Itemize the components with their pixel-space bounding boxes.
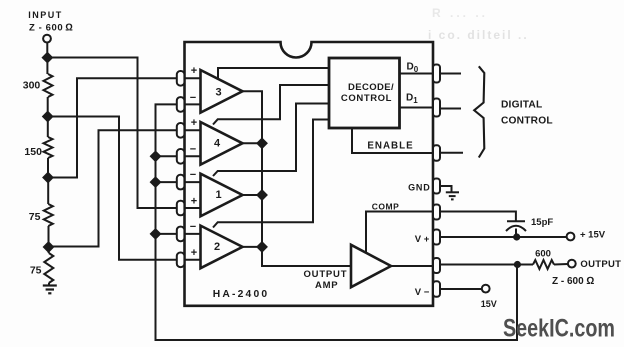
node -amp4 junction: [151, 152, 160, 161]
svg-text:−: −: [190, 221, 196, 233]
wire decode select amp4: [213, 85, 329, 125]
terminal OUTPUT: [568, 260, 576, 268]
svg-text:+: +: [191, 117, 197, 129]
wire amp2 output: [242, 246, 263, 248]
svg-text:AMP: AMP: [315, 280, 339, 291]
wire GND external: [440, 186, 452, 192]
wire V- external: [440, 288, 482, 290]
wire -amp4: [156, 155, 201, 157]
wire COMP internal: [366, 212, 433, 254]
pin +4: [177, 123, 185, 138]
svg-text:+: +: [191, 65, 197, 77]
pin -1: [177, 175, 185, 190]
pin V-: [433, 281, 440, 297]
wire -amp1: [156, 181, 201, 183]
node -amp2 junction: [151, 229, 160, 238]
brace digital control: [474, 66, 484, 157]
node C1 to V+: [513, 233, 520, 240]
node amp1 output junction: [257, 190, 266, 199]
wire decode select amp3: [218, 68, 329, 80]
svg-text:−: −: [190, 144, 196, 156]
wire amp3 output to bus: [242, 91, 352, 266]
terminal 15V: [482, 285, 490, 293]
pin V+: [433, 230, 440, 245]
svg-text:1: 1: [215, 189, 221, 201]
svg-text:Z - 600Ω: Z - 600Ω: [552, 275, 594, 287]
svg-text:−: −: [190, 169, 196, 181]
op-amp U1d 2: [201, 226, 243, 269]
svg-text:600: 600: [535, 249, 551, 260]
op-amp output amp: [351, 245, 391, 287]
resistor R3 75: [44, 204, 53, 226]
resistor R2 150: [44, 137, 53, 158]
node A: [43, 53, 52, 62]
wire D1: [400, 107, 434, 109]
wire: [46, 43, 48, 58]
wire node A to +amp1: [47, 58, 200, 209]
wire: [554, 263, 568, 266]
wire ENABLE external: [440, 152, 463, 154]
node amp4 output junction: [257, 139, 266, 148]
node D: [44, 242, 53, 251]
pin ENABLE: [433, 145, 440, 161]
svg-text:−: −: [190, 92, 196, 104]
wire COMP external: [440, 212, 516, 222]
op-amp U1c 1: [201, 174, 243, 217]
svg-text:75: 75: [29, 211, 41, 223]
svg-text:V −: V −: [415, 287, 430, 298]
svg-text:INPUT: INPUT: [28, 10, 63, 20]
svg-text:OUTPUT: OUTPUT: [303, 269, 347, 280]
svg-text:2: 2: [214, 241, 220, 253]
wire: [48, 247, 50, 253]
node -amp1 junction: [151, 178, 160, 187]
pin -4: [177, 149, 185, 164]
wire amp1 output: [242, 194, 263, 196]
wire node C to +amp3: [48, 78, 201, 177]
pin +3: [177, 71, 185, 86]
ground GND pin: [446, 192, 459, 199]
svg-text:75: 75: [30, 265, 42, 277]
ground: [43, 286, 57, 294]
node amp2 output junction: [257, 242, 266, 251]
wire amp4 output: [242, 142, 263, 144]
capacitor C1 15pF: [507, 220, 525, 222]
svg-text:300: 300: [23, 80, 41, 92]
svg-text:+: +: [191, 196, 197, 208]
pin COMP: [433, 205, 440, 220]
wire minus bus with feedback: [156, 104, 518, 340]
op-amp U1a 3: [201, 70, 243, 113]
pin D1: [433, 99, 440, 117]
svg-text:R ... ..: R ... ..: [432, 6, 488, 20]
svg-text:3: 3: [215, 86, 221, 98]
wire OUT external: [440, 264, 533, 266]
resistor R5 600: [533, 260, 554, 269]
node B: [43, 112, 52, 121]
svg-text:ENABLE: ENABLE: [367, 141, 413, 152]
svg-text:D1: D1: [406, 92, 418, 105]
pin +2: [177, 253, 185, 268]
wire decode select amp1: [213, 104, 329, 177]
wire decode select amp2: [213, 120, 329, 228]
input terminal: [43, 35, 51, 43]
svg-text:15pF: 15pF: [531, 217, 553, 228]
pin D0: [433, 65, 440, 83]
wire: [47, 158, 49, 178]
svg-text:DIGITAL: DIGITAL: [501, 99, 542, 110]
svg-text:150: 150: [24, 146, 42, 158]
node C: [43, 173, 52, 182]
decode/control block: [329, 58, 400, 128]
svg-text:+ 15V: + 15V: [580, 230, 606, 241]
svg-text:DECODE/: DECODE/: [348, 82, 394, 93]
svg-text:4: 4: [214, 137, 221, 149]
wire: [47, 97, 49, 117]
IC U1 HA-2400 outline: [185, 42, 434, 306]
wire V+ external: [440, 236, 567, 238]
op-amp U1b 4: [201, 122, 243, 165]
svg-text:HA-2400: HA-2400: [213, 289, 270, 300]
terminal +15V: [567, 233, 575, 241]
svg-text:SeekIC.com: SeekIC.com: [503, 315, 615, 343]
pin -2: [177, 227, 185, 242]
pin OUT: [433, 258, 440, 273]
svg-text:i co. dilteil ..: i co. dilteil ..: [428, 28, 529, 42]
wire: [48, 226, 50, 247]
pin GND: [433, 179, 440, 194]
decorative faint scan ghost (not labelled component): [428, 6, 529, 42]
wire D0 external: [440, 73, 461, 75]
wire -amp2: [156, 233, 201, 235]
wire output amp to OUT pin: [391, 265, 433, 267]
svg-text:CONTROL: CONTROL: [501, 115, 553, 126]
resistor R4 75: [44, 253, 53, 283]
wire: [48, 283, 50, 286]
svg-text:Z - 600Ω: Z - 600Ω: [29, 23, 74, 34]
wire node B to +amp2: [48, 117, 201, 260]
svg-text:OUTPUT: OUTPUT: [580, 259, 621, 270]
svg-text:CONTROL: CONTROL: [341, 93, 392, 104]
svg-text:+: +: [191, 247, 197, 259]
pin -3: [177, 97, 185, 112]
svg-text:15V: 15V: [481, 299, 497, 309]
pin +1: [177, 201, 185, 216]
wire D0: [400, 73, 434, 75]
wire D1 external: [440, 108, 461, 110]
wire ENABLE: [352, 128, 433, 153]
svg-text:V +: V +: [415, 234, 430, 245]
resistor R1 300: [44, 74, 53, 97]
wire node D to +amp4: [49, 130, 201, 246]
wire: [46, 58, 48, 75]
svg-text:GND: GND: [408, 182, 430, 192]
svg-text:D0: D0: [407, 61, 419, 74]
wire: [47, 178, 49, 205]
node output junction: [514, 261, 521, 268]
wire: [47, 117, 49, 138]
svg-text:COMP: COMP: [372, 202, 400, 212]
